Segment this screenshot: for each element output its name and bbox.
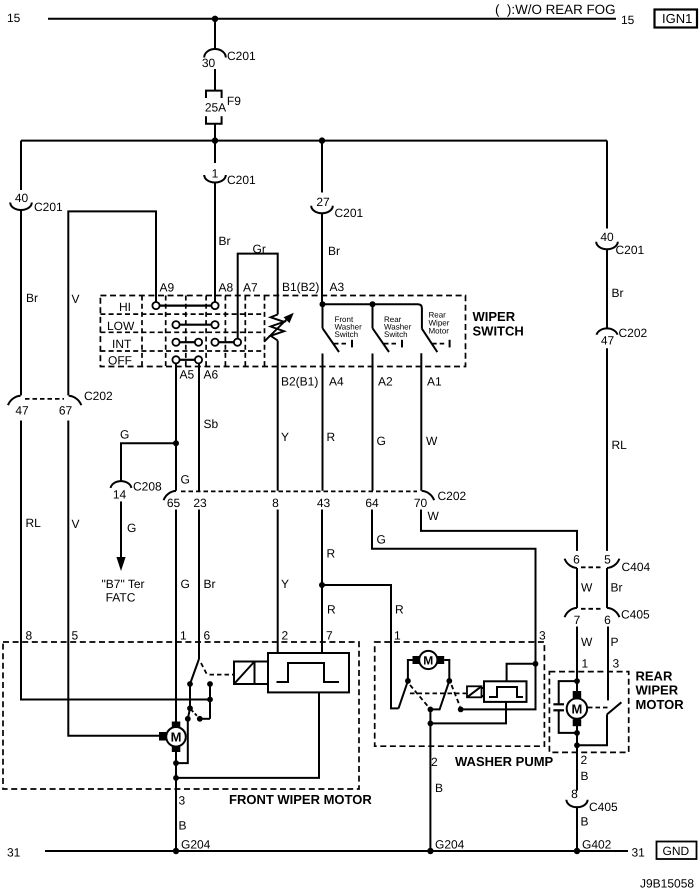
connector C202 pin 47 (right): [597, 326, 648, 348]
wire motor left to pivot: [408, 660, 413, 681]
svg-text:1: 1: [582, 657, 589, 671]
svg-text:G: G: [377, 434, 386, 448]
variable resistor (intermittent) on B1-B2: [264, 296, 294, 491]
svg-text:40: 40: [15, 191, 29, 205]
junction R branch: [319, 582, 325, 588]
svg-text:R: R: [327, 547, 336, 561]
node left contact mid: [187, 705, 193, 711]
washer switch dashed blade left: [410, 685, 429, 707]
svg-text:( ):W/O REAR FOG: ( ):W/O REAR FOG: [495, 2, 616, 17]
switch row INT contacts pair 2: [211, 339, 241, 346]
svg-text:R: R: [327, 430, 336, 444]
svg-text:1: 1: [212, 167, 219, 181]
svg-text:GND: GND: [663, 844, 690, 858]
wiper switch outer dashed box: [100, 296, 465, 367]
park switch pivot wire from pin 6: [198, 642, 200, 659]
svg-text:RL: RL: [612, 438, 628, 452]
wire rear ground to C405 pin 8: [576, 752, 578, 790]
svg-text:B1(B2): B1(B2): [282, 280, 319, 294]
svg-text:B: B: [581, 815, 589, 829]
washer switch dashed blade right: [452, 685, 461, 707]
svg-text:5: 5: [72, 629, 79, 643]
connector C201 pin 1: [204, 167, 256, 188]
svg-text:REAR: REAR: [636, 669, 673, 684]
wire from 15 rail to C201 pin 30: [214, 19, 216, 49]
wire G from C202-65 to front wiper pin 1: [175, 510, 177, 643]
svg-text:Br: Br: [328, 244, 340, 258]
front washer switch: [323, 304, 363, 490]
svg-text:8: 8: [26, 629, 33, 643]
washer contact to pump output: [428, 707, 434, 713]
junction rear motor bottom / park: [574, 742, 580, 748]
wire pin 8 to park switch right contact: [21, 642, 210, 700]
washer relay coil box: [467, 686, 484, 697]
svg-text:MOTOR: MOTOR: [636, 697, 685, 712]
svg-text:M: M: [171, 730, 182, 745]
wire RL right column to C404 pin 5: [606, 348, 608, 551]
dashed actuated blade (park lower): [191, 710, 198, 718]
wire R from C202-43 to front wiper pin 7: [321, 510, 323, 643]
svg-text:B: B: [179, 819, 187, 833]
svg-text:Switch: Switch: [384, 330, 408, 339]
svg-text:Motor: Motor: [429, 327, 450, 336]
wire fuse to main bus: [214, 124, 216, 141]
svg-text:HI: HI: [119, 300, 131, 314]
washer pump dashed box: [375, 642, 545, 746]
svg-text:70: 70: [414, 496, 428, 510]
front wiper motor dashed box: [3, 642, 359, 789]
svg-text:1: 1: [394, 629, 401, 643]
connector C208 pin 14: [111, 480, 162, 502]
svg-text:C201: C201: [34, 200, 63, 214]
svg-text:G: G: [377, 533, 386, 547]
switch row OFF contacts: [172, 356, 202, 363]
svg-text:M: M: [423, 654, 433, 668]
svg-text:A7: A7: [243, 281, 258, 295]
svg-text:G204: G204: [181, 838, 211, 852]
junction A5 / C208 branch: [173, 440, 179, 446]
wire right contact lower jog: [200, 718, 210, 720]
wire right contact down to pin8 rail: [209, 684, 211, 719]
svg-text:W: W: [581, 635, 593, 649]
pin stub A5: [175, 363, 177, 490]
svg-text:J9B15058: J9B15058: [640, 877, 694, 891]
label "B7" Ter FATC: [102, 577, 145, 605]
connector C405 pin 8: [566, 787, 618, 814]
svg-text:WIPER: WIPER: [473, 309, 516, 324]
node A3 junction 1: [320, 301, 326, 307]
pin stub A6: [198, 363, 200, 490]
svg-text:A2: A2: [378, 375, 393, 389]
junction motor bottom / relay return: [173, 775, 179, 781]
wire motor bottom to ground run: [175, 752, 177, 851]
wire Br from C201-27 to switch pin A3: [321, 213, 323, 304]
switch row LOW contacts: [172, 321, 218, 328]
svg-text:47: 47: [15, 404, 29, 418]
svg-text:Y: Y: [281, 430, 289, 444]
wire RL from C202-47 to front wiper pin 8: [20, 421, 22, 643]
junction motor bottom / park return: [173, 760, 179, 766]
svg-text:43: 43: [317, 496, 331, 510]
rear wiper motor M: [567, 681, 587, 726]
svg-text:8: 8: [272, 496, 279, 510]
svg-text:A6: A6: [204, 368, 219, 382]
wire pin3 riser into relay box top: [507, 664, 536, 682]
switch grid vertical dividers: [142, 296, 265, 367]
svg-text:WASHER PUMP: WASHER PUMP: [455, 754, 554, 769]
wire relay feed from contact to pin 3 riser: [461, 642, 536, 709]
wire motor right to pivot: [444, 660, 449, 681]
intermittent relay box (front): [268, 653, 349, 692]
connector C201 pin 30: [202, 49, 256, 70]
junction right contact / pin8 rail: [207, 697, 213, 703]
connector C405 pins 7/6: [565, 608, 650, 628]
wire washer output contact down: [429, 709, 431, 851]
junction washer output / relay return: [428, 721, 434, 727]
ground G204 (washer pump): [427, 838, 464, 855]
wire A7 down to INT contact: [237, 296, 239, 339]
svg-text:8: 8: [571, 787, 578, 801]
svg-text:2: 2: [282, 629, 289, 643]
junction on 15 rail: [212, 16, 218, 22]
wire right branch down to C201 pin 40 right: [606, 141, 608, 229]
svg-text:6: 6: [204, 629, 211, 643]
svg-text:23: 23: [193, 496, 207, 510]
wire Y from C202-8 to front wiper pin 2: [277, 510, 279, 643]
washer intermittent relay box: [484, 681, 527, 702]
wire pin 2 into relay box: [277, 642, 279, 653]
rear park switch dashed mechanical link: [588, 707, 609, 709]
wire pin 5 to motor left terminal: [68, 642, 159, 736]
wire Br right column: [606, 249, 608, 327]
svg-text:2: 2: [581, 753, 588, 767]
svg-text:C201: C201: [616, 243, 645, 257]
svg-text:C202: C202: [619, 326, 648, 340]
svg-text:64: 64: [365, 496, 379, 510]
svg-text:A9: A9: [160, 281, 175, 295]
svg-text:6: 6: [604, 613, 611, 627]
ground G402 (rear wiper): [574, 838, 612, 855]
svg-text:G: G: [181, 473, 190, 487]
svg-text:65: 65: [167, 496, 181, 510]
svg-text:7: 7: [574, 613, 581, 627]
svg-text:1: 1: [180, 629, 187, 643]
wire C201-30 to fuse F9: [214, 69, 216, 91]
ground G204 (front wiper): [173, 838, 211, 855]
wire rear motor bottom: [576, 726, 578, 752]
svg-text:FATC: FATC: [106, 591, 136, 605]
park switch contact right: [207, 681, 213, 687]
svg-text:C405: C405: [589, 800, 618, 814]
svg-text:C202: C202: [438, 489, 467, 503]
switch grid row dividers: [100, 314, 264, 351]
wire pin 1 to left blade contact: [391, 642, 399, 708]
svg-text:31: 31: [7, 846, 21, 860]
svg-text:"B7" Ter: "B7" Ter: [102, 577, 145, 591]
svg-text:V: V: [72, 292, 80, 306]
junction pin3 riser / relay feed: [533, 661, 539, 667]
junction bus at A3 branch: [319, 137, 325, 143]
svg-text:Br: Br: [612, 286, 624, 300]
wire relay return to motor bottom: [176, 692, 319, 778]
svg-text:25A: 25A: [205, 101, 226, 115]
wire washer relay box bottom return: [430, 702, 506, 724]
park switch dashed blade to relay coil: [201, 663, 233, 676]
svg-text:40: 40: [600, 230, 614, 244]
washer switch left solid blade: [399, 681, 408, 709]
svg-text:A5: A5: [180, 368, 195, 382]
park switch contact left: [187, 681, 193, 687]
svg-text:67: 67: [59, 404, 73, 418]
rear washer switch: [373, 304, 412, 490]
svg-text:F9: F9: [227, 94, 241, 108]
svg-text:C201: C201: [335, 206, 364, 220]
svg-text:R: R: [395, 603, 404, 617]
svg-text:OFF: OFF: [108, 354, 132, 368]
svg-text:30: 30: [202, 56, 216, 70]
svg-text:LOW: LOW: [107, 319, 135, 333]
svg-text:G402: G402: [582, 838, 612, 852]
wire W from C202-70 to C404 pin 6: [421, 510, 577, 551]
svg-text:G: G: [127, 521, 136, 535]
svg-text:6: 6: [573, 553, 580, 567]
wire left branch down to C201 pin 40: [20, 141, 22, 190]
fuse F9 25A: [205, 91, 241, 124]
washer pump motor M: [413, 651, 445, 669]
svg-text:R: R: [327, 603, 336, 617]
wire rear park contact return: [577, 714, 607, 745]
relay coil box: [234, 662, 268, 685]
washer switch mechanical dashed link: [410, 692, 466, 694]
wire Br left column to C202: [20, 210, 22, 395]
svg-text:3: 3: [179, 794, 186, 808]
svg-text:A1: A1: [427, 375, 442, 389]
wire V from C202-67 to front wiper pin 5: [67, 421, 69, 643]
wire left contact chain: [176, 684, 190, 763]
wire main distribution bus: [21, 140, 607, 142]
junction rear motor bottom / cap: [574, 730, 580, 736]
connector C202 main dashed row: [164, 489, 467, 510]
washer switch right solid blade: [433, 681, 449, 710]
wire G from C208 to FATC arrow: [120, 501, 122, 558]
svg-text:2: 2: [431, 755, 438, 769]
wire V branch from C202-67 up and over to switch pin A9: [68, 211, 156, 395]
svg-text:Br: Br: [611, 581, 623, 595]
svg-text:G: G: [120, 428, 129, 442]
svg-text:Switch: Switch: [335, 330, 359, 339]
wire A3 branch down to C201 pin 27: [321, 141, 323, 193]
switch row INT contacts pair 1: [172, 339, 202, 346]
wire P from C405-6 to rear wiper pin 3: [607, 627, 609, 701]
svg-text:G: G: [181, 577, 190, 591]
svg-text:15: 15: [621, 13, 635, 27]
svg-text:W: W: [428, 509, 440, 523]
svg-text:7: 7: [326, 629, 333, 643]
svg-text:C405: C405: [621, 608, 650, 622]
svg-text:V: V: [72, 517, 80, 531]
connector C202 pins 47/67 (left pair): [8, 389, 113, 418]
wire branch to C208 pin 14: [121, 443, 176, 481]
park switch solid blade: [190, 659, 199, 684]
svg-text:C208: C208: [133, 480, 162, 494]
label WIPER SWITCH: [473, 309, 524, 339]
wire W from C405-7 to rear wiper pin 1: [576, 627, 578, 682]
svg-text:P: P: [611, 635, 619, 649]
junction bus at A8 branch: [212, 137, 218, 143]
wire middle branch to C201 pin 1: [214, 141, 216, 163]
svg-text:5: 5: [604, 553, 611, 567]
svg-text:RL: RL: [26, 516, 42, 530]
wire top 15 rail: [48, 18, 616, 20]
svg-text:G204: G204: [435, 838, 465, 852]
svg-text:W: W: [581, 581, 593, 595]
wire C405-8 to ground bus: [576, 807, 578, 851]
svg-text:14: 14: [113, 488, 127, 502]
svg-text:15: 15: [7, 11, 21, 25]
connector C201 pin 40 (right): [596, 230, 644, 257]
svg-text:A3: A3: [330, 280, 345, 294]
svg-text:31: 31: [632, 846, 646, 860]
wire A3 feed rail to rear wiper switch: [323, 304, 422, 328]
svg-text:INT: INT: [112, 337, 132, 351]
wire pin 1 to motor top terminal: [175, 642, 177, 723]
switch row HI contacts: [152, 302, 218, 309]
label REAR WIPER MOTOR: [636, 669, 685, 713]
node park lower right: [197, 716, 203, 722]
rear wiper motor dashed box: [549, 672, 628, 753]
ground box GND: [657, 842, 697, 860]
svg-text:C404: C404: [622, 560, 651, 574]
svg-text:Br: Br: [26, 291, 38, 305]
wire pin 7 into relay box: [321, 642, 323, 653]
svg-text:FRONT WIPER MOTOR: FRONT WIPER MOTOR: [229, 792, 372, 807]
svg-text:3: 3: [613, 657, 620, 671]
svg-text:Br: Br: [219, 234, 231, 248]
svg-text:A4: A4: [329, 375, 344, 389]
node A3 junction 2: [370, 301, 376, 307]
power source box IGN1: [655, 10, 698, 28]
svg-text:M: M: [571, 701, 582, 716]
svg-text:3: 3: [539, 629, 546, 643]
junction rear pin 1: [574, 678, 580, 684]
jumper Gr from A7 to B1(B2): [238, 254, 278, 296]
svg-text:W: W: [426, 434, 438, 448]
svg-text:B: B: [435, 781, 443, 795]
washer switch right pivot: [446, 678, 452, 684]
svg-text:C201: C201: [227, 173, 256, 187]
front wiper motor M: [159, 722, 186, 753]
wire Br from C202-23 to front wiper pin 6: [198, 510, 200, 643]
svg-text:SWITCH: SWITCH: [473, 324, 524, 339]
svg-text:47: 47: [601, 334, 615, 348]
svg-text:Gr: Gr: [253, 242, 266, 256]
washer contact to relay: [458, 707, 464, 713]
connector C201 pin 27: [311, 195, 363, 220]
wire W between C404 and C405: [576, 568, 578, 608]
wire ground bus 31: [45, 850, 628, 852]
wire G from C202-64 to washer pump pin 3: [372, 510, 536, 643]
svg-text:WIPER: WIPER: [636, 683, 679, 698]
svg-text:IGN1: IGN1: [662, 11, 692, 26]
wire R branch to washer pump pin 1: [322, 585, 391, 642]
wire Br from C201-1 to switch pin A8: [214, 183, 216, 303]
rear park switch blade: [607, 702, 621, 714]
rear wiper motor switch (in wiper switch): [421, 311, 449, 491]
svg-text:A8: A8: [219, 281, 234, 295]
svg-text:C201: C201: [227, 49, 256, 63]
wire Br between C404 and C405: [606, 568, 608, 608]
svg-text:B2(B1): B2(B1): [281, 375, 318, 389]
svg-text:Sb: Sb: [204, 417, 219, 431]
node left contact lower: [185, 716, 191, 722]
connector C201 pin 40 (left): [10, 191, 63, 214]
arrow to FATC: [116, 557, 125, 571]
washer switch left pivot: [405, 678, 411, 684]
svg-text:Y: Y: [281, 577, 289, 591]
connector C404 pins 6/5: [565, 553, 651, 575]
svg-text:B: B: [581, 769, 589, 783]
capacitor branch (rear): [553, 681, 577, 733]
svg-text:C202: C202: [84, 389, 113, 403]
svg-text:Br: Br: [204, 577, 216, 591]
svg-text:27: 27: [316, 195, 330, 209]
